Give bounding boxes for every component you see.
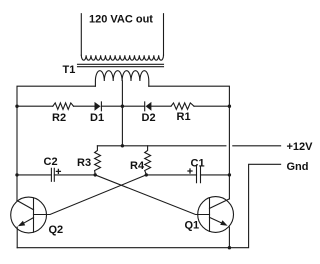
svg-text:D2: D2 xyxy=(142,112,156,124)
svg-text:C1: C1 xyxy=(191,158,205,170)
svg-text:R3: R3 xyxy=(77,157,91,169)
svg-text:T1: T1 xyxy=(63,64,76,76)
svg-text:C2: C2 xyxy=(44,156,58,168)
svg-text:R1: R1 xyxy=(177,111,191,123)
svg-text:+12V: +12V xyxy=(287,141,314,153)
svg-text:120 VAC out: 120 VAC out xyxy=(89,13,153,25)
svg-text:Gnd: Gnd xyxy=(287,161,309,173)
svg-text:R4: R4 xyxy=(130,160,145,172)
svg-text:Q2: Q2 xyxy=(49,224,64,236)
svg-text:Q1: Q1 xyxy=(185,220,200,232)
svg-text:R2: R2 xyxy=(52,112,66,124)
svg-text:D1: D1 xyxy=(90,112,104,124)
